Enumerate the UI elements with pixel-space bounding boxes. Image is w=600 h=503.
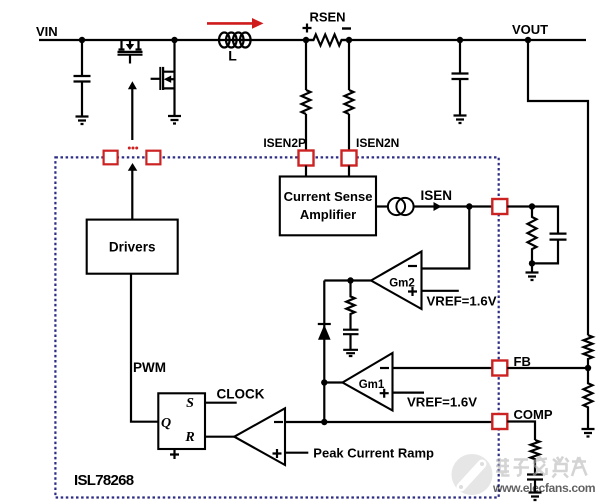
wire COMP to external RC [507, 422, 535, 441]
label VREF Gm2 [427, 294, 497, 309]
label plus latch [170, 450, 179, 459]
transistor Q2 low-side MOSFET [151, 40, 175, 115]
ground divider [582, 429, 595, 437]
wire Gm1 minus to FB [393, 367, 493, 369]
label minus RSEN [342, 27, 351, 29]
pin gate drive 2 [146, 151, 160, 165]
svg-text:Gm2: Gm2 [389, 278, 415, 290]
resistor sense filter N [345, 90, 354, 151]
wire RSEN- sense drop [348, 40, 350, 90]
label FB [514, 354, 531, 369]
ground input cap [76, 117, 89, 125]
wire ISEN with arrow [414, 202, 493, 211]
node ISEN ext top [529, 203, 535, 209]
resistor Gm2 compensation [346, 281, 354, 330]
wire ISEN junction to Gm2 minus [422, 207, 470, 269]
svg-text:L: L [228, 48, 237, 64]
ground low-side FET [168, 116, 181, 124]
ground Gm2 compensation [343, 350, 358, 356]
node VOUT junction [525, 37, 531, 43]
label plus RSEN [303, 24, 312, 33]
svg-text:Q: Q [161, 416, 171, 431]
comparator PWM [234, 408, 285, 465]
svg-text:COMP: COMP [514, 407, 553, 422]
svg-text:Peak Current Ramp: Peak Current Ramp [313, 446, 434, 461]
svg-text:ISEN2N: ISEN2N [356, 136, 399, 150]
label CLOCK [217, 387, 265, 402]
svg-text:FB: FB [514, 354, 531, 369]
svg-text:RSEN: RSEN [309, 10, 345, 25]
wire ISEN pin to external RC [507, 207, 558, 234]
wire arrow gate drive upper [128, 81, 137, 140]
svg-text:Gm1: Gm1 [359, 379, 385, 391]
block Current Sense Amplifier [280, 177, 376, 236]
capacitor input bypass [74, 40, 91, 116]
svg-text:VIN: VIN [36, 24, 58, 39]
dashed IC boundary box ISL78268 [55, 157, 498, 497]
resistor sense filter P [302, 90, 311, 151]
pin FB [492, 361, 507, 376]
svg-text:VREF=1.6V: VREF=1.6V [407, 395, 477, 410]
wire Gm2 output down through diode [323, 281, 325, 423]
wire Gm1 plus VREF stub [393, 392, 425, 394]
wire R input [205, 436, 234, 438]
label ISEN2P [263, 136, 306, 150]
ground ISEN external [526, 263, 539, 280]
label L [228, 48, 237, 64]
node VOUT bypass junction [457, 37, 463, 43]
resistor RSEN [306, 35, 349, 46]
label VREF Gm1 [407, 395, 477, 410]
wire Gm2 plus VREF stub [422, 290, 459, 292]
capacitor Gm2 compensation [343, 330, 359, 349]
red dots continuation [128, 147, 138, 150]
node ISEN ext bottom [529, 260, 535, 266]
pin ISEN2N [342, 151, 357, 166]
wire comparator plus ramp [285, 452, 308, 454]
svg-text:ISEN2P: ISEN2P [263, 136, 306, 150]
wire Gm2 output [324, 279, 371, 281]
svg-text:Drivers: Drivers [109, 240, 156, 255]
node VIN bypass junction [79, 37, 85, 43]
pin COMP [492, 414, 507, 429]
svg-text:ISL78268: ISL78268 [74, 472, 134, 489]
latch PWM box [158, 393, 205, 449]
resistor ISEN external [528, 207, 537, 264]
svg-text:CLOCK: CLOCK [217, 387, 265, 402]
diode clamp [318, 324, 331, 340]
capacitor output bypass [452, 40, 469, 115]
label RSEN [309, 10, 345, 25]
pin ISEN2P [299, 151, 314, 166]
resistor COMP external [531, 440, 540, 475]
svg-text:R: R [184, 430, 194, 445]
node Gm2 comp branch [347, 277, 353, 283]
watermark logo circle [452, 454, 493, 495]
transistor Q1 high-side MOSFET [118, 40, 143, 64]
svg-text:PWM: PWM [133, 360, 166, 375]
label Peak Current Ramp [313, 446, 434, 461]
current source CSA output [376, 198, 414, 215]
wire comparator minus to COMP [285, 421, 492, 423]
watermark chinese text [496, 457, 587, 478]
svg-text:Current Sense: Current Sense [284, 189, 373, 204]
inductor L [219, 33, 251, 48]
svg-text:ISEN: ISEN [421, 188, 453, 203]
label COMP [514, 407, 553, 422]
wire Gm1 output [324, 381, 342, 383]
wire pins to CSA [306, 166, 349, 177]
svg-text:VOUT: VOUT [512, 22, 548, 37]
op-amp Gm1 [343, 353, 393, 411]
ground COMP external [529, 493, 542, 501]
label ISEN [421, 188, 453, 203]
node RSEN left [303, 37, 309, 43]
wire FB to divider [507, 367, 588, 369]
pin ISEN [492, 199, 507, 214]
label VOUT [512, 22, 548, 37]
label ISEN2N [356, 136, 399, 150]
watermark url text [492, 481, 596, 495]
wire arrow drivers to gate pins [128, 163, 138, 220]
label ISL78268 [74, 472, 134, 489]
op-amp Gm2 [371, 252, 422, 310]
node Gm1 output junction [321, 379, 327, 385]
wire PWM [131, 274, 158, 422]
capacitor COMP external [527, 475, 543, 493]
svg-text:VREF=1.6V: VREF=1.6V [427, 294, 497, 309]
node comparator minus junction [321, 419, 327, 425]
label PWM [133, 360, 166, 375]
ground output cap [454, 116, 467, 124]
wire VOUT to feedback divider [528, 40, 588, 335]
svg-text:Amplifier: Amplifier [300, 207, 356, 222]
label VIN [36, 24, 58, 39]
resistor divider upper [584, 335, 593, 368]
node switch junction [171, 37, 177, 43]
capacitor ISEN external [532, 234, 567, 264]
red current direction arrow [207, 18, 264, 29]
wire S clock input [205, 402, 237, 404]
node ISEN junction [466, 203, 472, 209]
block Drivers [87, 220, 178, 274]
wire RSEN+ sense drop [305, 40, 307, 90]
node RSEN right [346, 37, 352, 43]
wire top rail VIN to VOUT [39, 39, 586, 41]
svg-text:www.elecfans.com: www.elecfans.com [492, 481, 596, 495]
svg-text:S: S [186, 396, 194, 411]
resistor divider lower [584, 368, 593, 429]
node FB divider [585, 365, 591, 371]
pin gate drive 1 [104, 151, 118, 165]
